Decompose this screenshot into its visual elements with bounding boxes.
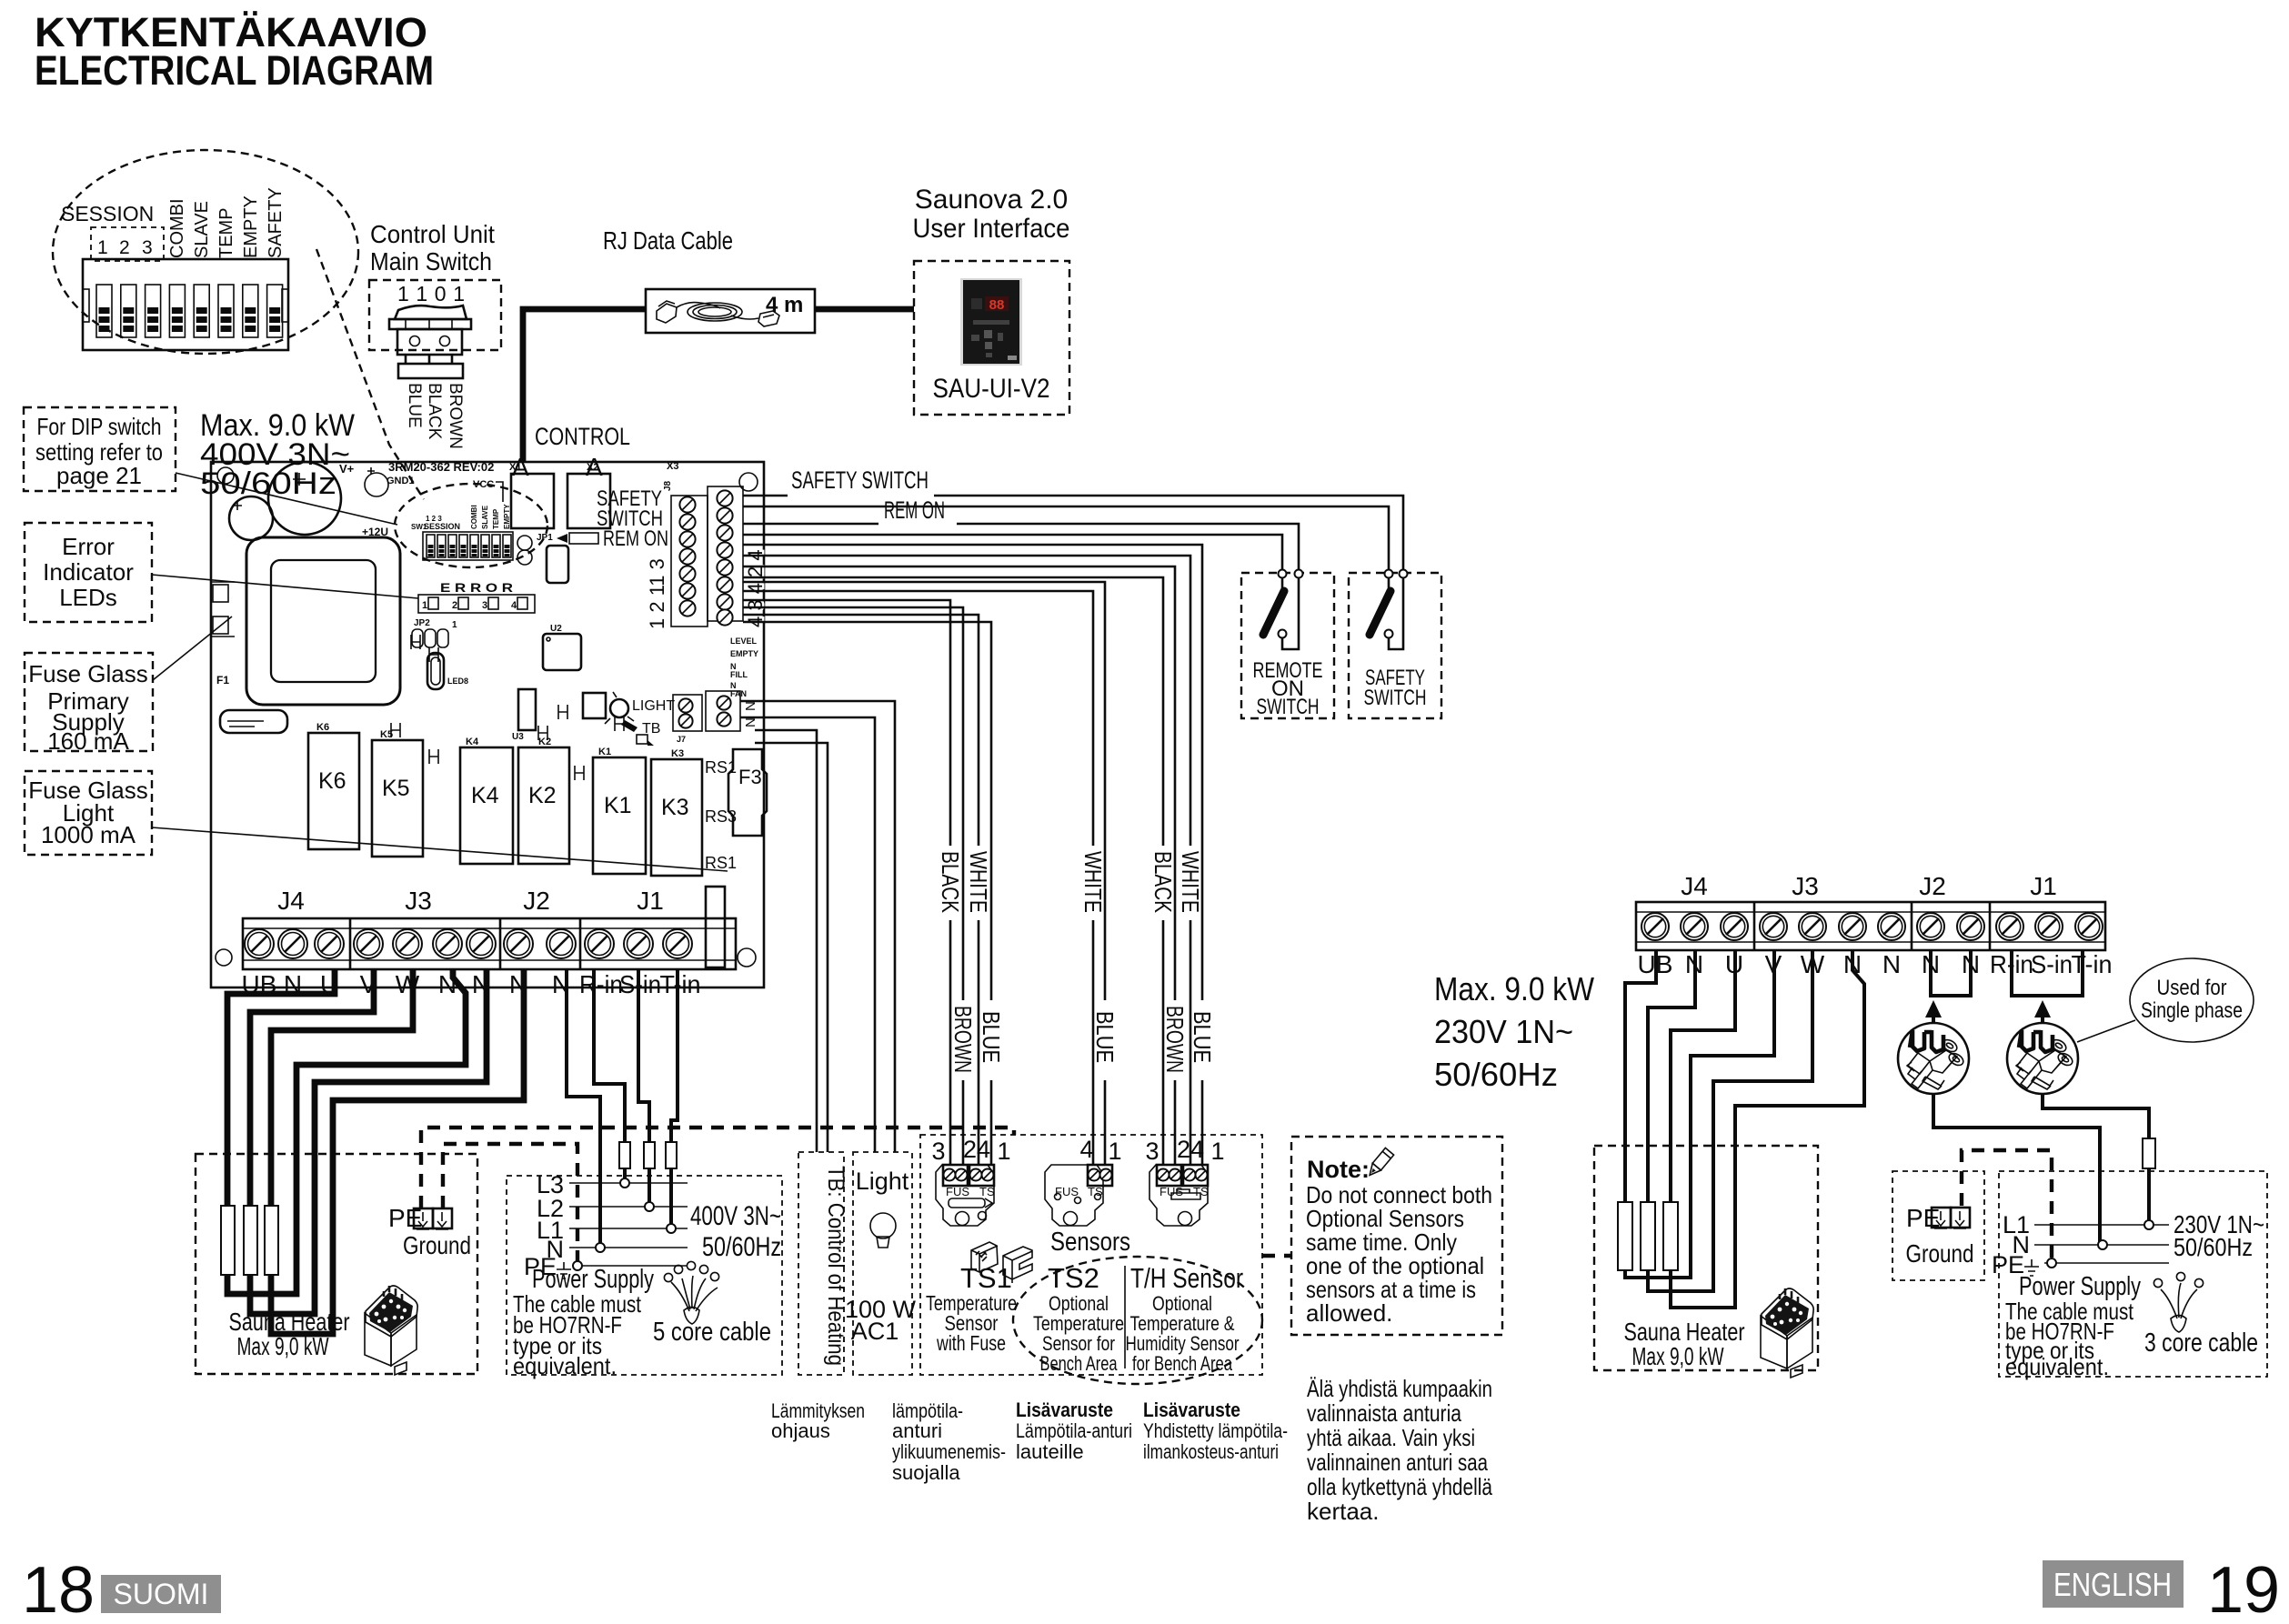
svg-text:Lämpötila-anturi: Lämpötila-anturi xyxy=(1016,1419,1132,1442)
connector J8 right column xyxy=(708,486,743,621)
svg-text:SWITCH: SWITCH xyxy=(1364,686,1427,710)
PCB board outline xyxy=(211,462,764,987)
label Max 9.0 kW 230V 1N~ 50/60Hz (right) xyxy=(1434,970,1594,1093)
jumper JP1 xyxy=(517,533,553,565)
wire w3 REM ON to remote switch right pin xyxy=(743,524,1299,569)
svg-text:SESSION: SESSION xyxy=(424,522,460,531)
svg-text:Ground: Ground xyxy=(403,1231,471,1259)
svg-text:W: W xyxy=(396,970,420,998)
plug circle 1 xyxy=(1898,1023,1969,1094)
annotation box: Fuse Glass Light 1000 mA xyxy=(25,771,152,855)
svg-text:1 1 0 1: 1 1 0 1 xyxy=(397,282,465,306)
label Max 9.0 kW 400V 3N~ 50/60Hz xyxy=(200,408,355,501)
svg-text:RJ Data Cable: RJ Data Cable xyxy=(603,226,733,255)
svg-text:Max. 9.0 kW: Max. 9.0 kW xyxy=(1434,970,1594,1007)
annotation box: Error Indicator LEDs xyxy=(25,523,152,622)
svg-text:X3: X3 xyxy=(667,461,678,472)
3 core cable icon xyxy=(2153,1272,2203,1332)
svg-text:Light: Light xyxy=(856,1168,909,1195)
finnish label Lisavaruste T/H xyxy=(1143,1398,1288,1463)
svg-text:BLUE: BLUE xyxy=(405,383,424,428)
svg-text:equivalent.: equivalent. xyxy=(2005,1353,2109,1380)
connector X2 xyxy=(567,474,610,528)
svg-text:BLUE: BLUE xyxy=(1091,1011,1119,1063)
svg-text:FUS: FUS xyxy=(1055,1185,1079,1198)
svg-text:BLACK: BLACK xyxy=(1150,851,1177,914)
terminal screws main strip xyxy=(245,929,692,958)
svg-text:J7: J7 xyxy=(677,735,686,744)
SAFETY SWITCH dashed box xyxy=(1349,573,1441,718)
fuse on R-in line xyxy=(619,1142,630,1168)
svg-text:3: 3 xyxy=(142,237,153,258)
Note dashed box xyxy=(1291,1137,1502,1335)
wire to TB box b xyxy=(755,743,828,1152)
annotation box: Fuse Glass Primary Supply 160 mA xyxy=(25,653,153,755)
caps between relays xyxy=(391,723,584,780)
svg-text:3RM20-362 REV:02: 3RM20-362 REV:02 xyxy=(388,460,494,474)
wire w2 to safety switch left pin xyxy=(743,506,1389,569)
chip U3 xyxy=(512,689,536,742)
fuse on T-in line xyxy=(666,1142,677,1168)
svg-text:EMPTY: EMPTY xyxy=(241,195,261,258)
dashed box around 1 2 3 xyxy=(91,227,164,261)
fuse on S-in line xyxy=(644,1142,655,1168)
sauna heater icon (right) xyxy=(1761,1288,1813,1378)
svg-text:Yhdistetty lämpötila-: Yhdistetty lämpötila- xyxy=(1143,1419,1288,1442)
svg-text:Main Switch: Main Switch xyxy=(370,247,492,276)
svg-text:ilmankosteus-anturi: ilmankosteus-anturi xyxy=(1143,1440,1279,1463)
svg-text:TS1: TS1 xyxy=(960,1262,1012,1294)
small caps H symbols xyxy=(411,635,438,662)
wire N3 to element3 bottom xyxy=(271,969,524,1334)
svg-text:N: N xyxy=(1882,950,1901,978)
dashed leader sensors to note xyxy=(1262,1254,1291,1258)
line L3 xyxy=(569,1182,688,1184)
svg-text:SW1: SW1 xyxy=(411,523,427,531)
main switch rocker xyxy=(389,306,471,378)
svg-text:CONTROL: CONTROL xyxy=(535,423,630,450)
svg-text:5 core cable: 5 core cable xyxy=(653,1318,771,1347)
svg-text:Lisävaruste: Lisävaruste xyxy=(1143,1398,1240,1421)
label The cable must be HO7RN-F type or its equivalent xyxy=(513,1290,642,1379)
svg-text:Single phase: Single phase xyxy=(2141,998,2243,1023)
svg-text:Bench Area: Bench Area xyxy=(1040,1352,1119,1375)
svg-text:1: 1 xyxy=(1108,1138,1121,1165)
svg-text:ohjaus: ohjaus xyxy=(771,1419,830,1442)
leader from ellipse to plug2 xyxy=(2077,1020,2135,1042)
chip U2 xyxy=(543,624,581,670)
svg-text:LEDs: LEDs xyxy=(59,584,117,611)
relay K2 xyxy=(518,737,569,864)
line PE xyxy=(582,1265,688,1267)
Power Supply dashed box (left) xyxy=(507,1176,782,1375)
leader line from Fuse Glass Light box to F3 xyxy=(152,827,728,871)
svg-text:TS: TS xyxy=(979,1185,995,1198)
finnish label Lammityksen ohjaus xyxy=(771,1399,865,1442)
svg-text:J1: J1 xyxy=(637,887,664,915)
svg-text:kertaa.: kertaa. xyxy=(1307,1498,1380,1525)
wire w12 BROWN to TS1 sensor xyxy=(743,607,963,1165)
svg-text:19: 19 xyxy=(2207,1554,2280,1624)
resistor block right xyxy=(706,887,725,967)
svg-text:JP2: JP2 xyxy=(414,618,430,628)
svg-text:BROWN: BROWN xyxy=(949,1006,977,1073)
svg-text:SUOMI: SUOMI xyxy=(114,1578,209,1610)
svg-text:WHITE: WHITE xyxy=(1079,851,1107,913)
svg-text:page 21: page 21 xyxy=(56,462,142,489)
component under transformer xyxy=(220,710,287,733)
svg-text:1: 1 xyxy=(97,237,108,258)
svg-text:LED8: LED8 xyxy=(447,677,468,686)
svg-text:50/60Hz: 50/60Hz xyxy=(1434,1056,1558,1093)
right terminal labels xyxy=(1638,950,2113,978)
svg-text:1 2 11 3: 1 2 11 3 xyxy=(646,558,668,629)
light bulb icon xyxy=(870,1213,896,1248)
dashed ellipse around optional sensors xyxy=(1013,1257,1262,1384)
svg-text:T-in: T-in xyxy=(2072,950,2113,978)
wire J7 to Light box a xyxy=(740,701,895,1152)
arrow to plug1 xyxy=(1925,1000,1942,1018)
svg-text:Used for: Used for xyxy=(2157,976,2227,1000)
heater element 2 xyxy=(244,1206,257,1275)
transformer T1 outer xyxy=(246,537,400,705)
label TS1 description xyxy=(926,1291,1017,1355)
wire w14 BLUE to TS1 sensor xyxy=(743,622,991,1165)
wire W to heater element 3 xyxy=(271,969,413,1206)
ENGLISH gray tag xyxy=(2043,1560,2184,1608)
svg-text:E R R O R: E R R O R xyxy=(440,580,513,595)
wire to TB box a xyxy=(755,730,817,1152)
svg-text:WHITE: WHITE xyxy=(1177,851,1204,913)
svg-text:Max 9,0 kW: Max 9,0 kW xyxy=(237,1332,329,1360)
dashed earth wire (right) xyxy=(1962,1150,2052,1259)
svg-text:GND1: GND1 xyxy=(387,476,415,486)
svg-text:50/60Hz: 50/60Hz xyxy=(702,1232,781,1262)
Power Supply dashed box (right) xyxy=(1999,1171,2267,1377)
plug circle 2 xyxy=(2007,1023,2078,1094)
right terminal strip xyxy=(1636,902,2105,950)
svg-text:K1: K1 xyxy=(598,747,611,757)
svg-text:J2: J2 xyxy=(1919,872,1946,900)
svg-text:Ground: Ground xyxy=(1906,1239,1974,1268)
relay K1 xyxy=(593,747,646,874)
svg-text:yhtä aikaa. Vain yksi: yhtä aikaa. Vain yksi xyxy=(1307,1424,1475,1451)
wire PCB CONTROL to RJ box xyxy=(523,309,646,462)
leader line from Error box to ERROR LEDs xyxy=(152,575,418,598)
remote on switch symbol xyxy=(1263,570,1303,650)
DIP switch callout dashed ellipse xyxy=(53,150,358,354)
svg-text:olla kytkettynä yhdellä: olla kytkettynä yhdellä xyxy=(1307,1473,1492,1500)
label REM ON with arrow xyxy=(557,526,668,551)
J8 screws left xyxy=(679,496,695,616)
svg-text:COMBI: COMBI xyxy=(167,198,187,258)
svg-text:J1: J1 xyxy=(2030,872,2057,900)
svg-text:J3: J3 xyxy=(405,887,432,915)
bracket J2 N-N to plug1 xyxy=(1931,950,1971,996)
svg-text:RS3: RS3 xyxy=(705,807,737,826)
svg-text:K6: K6 xyxy=(316,722,329,733)
svg-text:REM ON: REM ON xyxy=(884,496,945,524)
svg-text:LEVEL: LEVEL xyxy=(730,637,758,646)
svg-text:RS1: RS1 xyxy=(705,758,737,777)
svg-text:BROWN: BROWN xyxy=(1161,1006,1189,1073)
svg-text:allowed.: allowed. xyxy=(1306,1299,1392,1327)
finnish label lampotila-anturi xyxy=(892,1399,1006,1484)
wire N to element2 (right) xyxy=(1648,950,1695,1202)
svg-text:88: 88 xyxy=(989,297,1005,313)
crystal Y1 xyxy=(427,653,468,689)
svg-text:K1: K1 xyxy=(604,793,632,818)
svg-text:Lisävaruste: Lisävaruste xyxy=(1016,1398,1113,1421)
wire J7 to Light box b xyxy=(740,717,875,1152)
svg-text:J4: J4 xyxy=(277,887,305,915)
wire w1 to safety switch right pin xyxy=(743,496,1403,569)
wire w11 BLACK to TS1 sensor xyxy=(743,600,950,1165)
wire w9 BLUE to TS2 sensor xyxy=(743,582,1105,1165)
svg-text:4: 4 xyxy=(1079,1136,1093,1163)
SUOMI gray tag xyxy=(101,1575,221,1613)
svg-text:SAFETY: SAFETY xyxy=(266,187,286,258)
svg-text:FILL: FILL xyxy=(730,670,748,679)
wire plug1 to N line xyxy=(1933,1094,2100,1245)
svg-text:Indicator: Indicator xyxy=(43,558,134,586)
Light dashed box xyxy=(853,1152,912,1375)
svg-text:K4: K4 xyxy=(471,783,499,808)
svg-text:equivalent.: equivalent. xyxy=(513,1352,617,1379)
svg-text:3: 3 xyxy=(1145,1138,1159,1165)
light icon on PCB xyxy=(605,692,675,746)
PE ground terminal (right) xyxy=(1892,1171,1984,1280)
wire w7 BROWN to T/H sensor xyxy=(743,566,1175,1165)
svg-text:SLAVE: SLAVE xyxy=(481,505,489,529)
svg-text:R-in: R-in xyxy=(579,970,623,998)
sensor T/H xyxy=(1145,1136,1224,1226)
Sensors dashed box xyxy=(920,1135,1262,1375)
Saunova UI panel SAU-UI-V2 xyxy=(960,278,1022,366)
wire plug2 to fuse to L1 line xyxy=(2043,1094,2149,1225)
svg-text:REM ON: REM ON xyxy=(603,526,668,551)
RJ plug right xyxy=(758,311,779,326)
heater element 3 (right) xyxy=(1663,1202,1678,1270)
svg-text:SAFETY SWITCH: SAFETY SWITCH xyxy=(791,466,929,494)
REMOTE ON SWITCH dashed box xyxy=(1241,573,1334,718)
svg-text:T/H Sensor: T/H Sensor xyxy=(1130,1262,1243,1294)
wire V to heater element 2 xyxy=(250,969,374,1206)
svg-text:1 2 3: 1 2 3 xyxy=(426,515,442,523)
svg-text:U2: U2 xyxy=(550,624,562,634)
svg-text:For DIP switch: For DIP switch xyxy=(37,413,162,440)
wire U to element3 (right) xyxy=(1671,950,1735,1202)
divider between TS2 and T/H columns xyxy=(1124,1266,1126,1368)
svg-text:A: A xyxy=(586,453,603,481)
dashed earth wire to sensors box xyxy=(421,1128,1014,1208)
svg-text:S-in: S-in xyxy=(2031,950,2073,978)
relay K6 xyxy=(308,722,359,849)
svg-text:SWITCH: SWITCH xyxy=(1257,695,1320,719)
svg-text:K5: K5 xyxy=(382,776,410,801)
Control Unit Main Switch dashed box xyxy=(369,280,501,350)
svg-text:ENGLISH: ENGLISH xyxy=(2053,1566,2172,1603)
wire N1 to element1 bottom xyxy=(227,969,466,1294)
svg-text:lauteille: lauteille xyxy=(1016,1440,1084,1463)
dashed earth wire to power supply box xyxy=(443,1144,577,1264)
sensor TS2 xyxy=(1045,1136,1122,1226)
label T/H description xyxy=(1126,1292,1240,1375)
sauna heater icon (left) xyxy=(365,1286,417,1375)
leader line from Fuse Glass Primary box to F1 xyxy=(153,617,232,680)
svg-text:User Interface: User Interface xyxy=(913,214,1070,244)
svg-text:SLAVE: SLAVE xyxy=(192,201,212,258)
label Used for Single phase ellipse xyxy=(2130,958,2254,1042)
svg-text:K2: K2 xyxy=(538,737,551,747)
svg-text:valinnaista anturia: valinnaista anturia xyxy=(1307,1399,1461,1427)
wire W to element2 bottom (right) xyxy=(1648,950,1812,1291)
DIP switch block (callout) xyxy=(83,259,288,350)
connector J7 xyxy=(673,691,740,744)
svg-text:Note:: Note: xyxy=(1307,1156,1370,1183)
line N xyxy=(569,1247,688,1248)
svg-text:1: 1 xyxy=(452,620,457,630)
wire w8 BLACK to T/H sensor xyxy=(743,577,1163,1165)
svg-text:K3: K3 xyxy=(661,795,689,820)
cable coil xyxy=(677,303,720,308)
svg-text:A: A xyxy=(512,453,529,481)
wire w4 to remote switch left pin xyxy=(743,535,1282,569)
svg-text:K6: K6 xyxy=(318,768,346,794)
annotation box: For DIP switch setting refer to page 21 xyxy=(24,407,176,491)
labels LEVEL EMPTY N FILL N FAN xyxy=(730,637,758,698)
line L1 xyxy=(569,1228,688,1229)
relay K4 xyxy=(460,737,513,864)
finnish note text xyxy=(1307,1375,1492,1525)
svg-text:1: 1 xyxy=(422,600,427,611)
svg-text:SAU-UI-V2: SAU-UI-V2 xyxy=(933,374,1050,404)
wire RJ box to Saunova UI xyxy=(815,306,914,313)
svg-text:COMBI: COMBI xyxy=(470,505,478,529)
wire R-in to fuse and L3 xyxy=(594,969,625,1183)
svg-text:Max 9,0 kW: Max 9,0 kW xyxy=(1632,1342,1724,1370)
DIP switch dashed ellipse on PCB xyxy=(395,484,547,567)
svg-text:TEMP: TEMP xyxy=(492,508,500,529)
terminal labels UB N U V W N N N N R-in S-in T-in xyxy=(242,970,701,998)
line L2 xyxy=(569,1206,688,1208)
svg-text:J3: J3 xyxy=(1792,872,1819,900)
svg-text:anturi: anturi xyxy=(892,1419,942,1442)
wire N2 to element2 bottom xyxy=(250,969,487,1314)
sensor TS1 xyxy=(931,1136,1010,1226)
RJ plug left xyxy=(657,301,677,323)
PCB mounting holes xyxy=(217,467,234,484)
wire w6 WHITE to T/H sensor xyxy=(743,556,1190,1165)
chip U1 xyxy=(547,546,568,583)
wire T-in to fuse and L1 xyxy=(671,969,678,1228)
svg-text:50/60Hz: 50/60Hz xyxy=(2174,1233,2253,1261)
svg-text:for Bench Area: for Bench Area xyxy=(1132,1352,1233,1375)
terminal strip main xyxy=(243,918,736,969)
safety switch symbol xyxy=(1370,570,1408,650)
svg-text:EMPTY: EMPTY xyxy=(730,649,758,658)
svg-text:Sensors: Sensors xyxy=(1050,1228,1130,1257)
svg-text:Saunova 2.0: Saunova 2.0 xyxy=(915,185,1068,215)
svg-text:LIGHT: LIGHT xyxy=(632,698,675,714)
svg-text:1: 1 xyxy=(1210,1138,1224,1165)
Sauna Heater dashed box (left) xyxy=(196,1154,477,1374)
wire w13 WHITE to TS1 sensor xyxy=(743,615,979,1165)
svg-text:valinnainen anturi saa: valinnainen anturi saa xyxy=(1307,1449,1488,1476)
PE ground terminal (left) xyxy=(388,1204,471,1259)
title KYTKENTAKAAVIO / ELECTRICAL DIAGRAM xyxy=(35,9,434,94)
svg-text:VCC: VCC xyxy=(473,479,494,490)
Saunova UI dashed box xyxy=(914,261,1069,415)
svg-text:K3: K3 xyxy=(671,748,684,759)
svg-text:SESSION: SESSION xyxy=(61,202,154,226)
DIP switches 1-8 (callout) xyxy=(96,285,283,337)
svg-text:Fuse Glass: Fuse Glass xyxy=(28,660,148,687)
heater element 1 (right) xyxy=(1618,1202,1632,1270)
svg-text:JP1: JP1 xyxy=(537,533,553,543)
svg-text:with Fuse: with Fuse xyxy=(936,1331,1006,1355)
bracket J1 S-in/T-in to plug2 xyxy=(2012,950,2083,996)
svg-text:N: N xyxy=(743,701,758,711)
svg-text:T-in: T-in xyxy=(660,970,701,998)
svg-text:ELECTRICAL DIAGRAM: ELECTRICAL DIAGRAM xyxy=(35,47,434,94)
svg-text:K2: K2 xyxy=(528,783,557,808)
note text xyxy=(1306,1181,1492,1327)
svg-text:18: 18 xyxy=(22,1554,95,1624)
svg-text:EMPTY: EMPTY xyxy=(503,504,511,529)
right strip screws xyxy=(1641,913,2103,940)
svg-text:3: 3 xyxy=(931,1138,945,1165)
svg-text:F3: F3 xyxy=(738,766,762,788)
jumper JP2 xyxy=(412,618,457,647)
capacitor C-small xyxy=(229,496,273,540)
fuse right xyxy=(2143,1138,2155,1168)
svg-text:1: 1 xyxy=(997,1138,1010,1165)
5 core cable icon xyxy=(664,1261,718,1324)
svg-text:BLACK: BLACK xyxy=(425,383,444,440)
finnish label Lisavaruste TS2 xyxy=(1016,1398,1132,1463)
connector icons near TS1 xyxy=(971,1242,1032,1283)
heater element 2 (right) xyxy=(1641,1202,1655,1270)
svg-text:400V 3N~: 400V 3N~ xyxy=(690,1201,781,1231)
label Note: with pencil icon xyxy=(1307,1148,1394,1183)
svg-text:TEMP: TEMP xyxy=(216,207,236,258)
TB Control of Heating dashed box xyxy=(798,1152,844,1375)
svg-text:24: 24 xyxy=(1177,1136,1204,1163)
wire U to heater element 1 xyxy=(227,969,335,1206)
svg-text:3: 3 xyxy=(482,600,487,611)
svg-text:Control Unit: Control Unit xyxy=(370,220,495,248)
svg-text:4: 4 xyxy=(511,600,517,611)
wire UB to element1 (right) xyxy=(1625,950,1656,1202)
svg-text:160 mA: 160 mA xyxy=(47,727,129,755)
ERROR indicator LEDs xyxy=(418,580,535,613)
capacitor C-3 xyxy=(365,473,388,496)
svg-text:J8: J8 xyxy=(663,480,673,491)
svg-text:WHITE: WHITE xyxy=(965,851,992,913)
svg-text:24: 24 xyxy=(963,1136,990,1163)
dashed leader from callout ellipse to PCB DIP xyxy=(316,249,424,499)
J8 screws right xyxy=(717,490,732,625)
fuse F1 clips on left edge xyxy=(211,582,235,687)
arrow to plug2 xyxy=(2034,1000,2051,1018)
svg-text:BLUE: BLUE xyxy=(1189,1011,1216,1063)
svg-text:FUS: FUS xyxy=(946,1185,969,1198)
relay K5 xyxy=(372,729,423,857)
wire w5 BLUE to T/H sensor xyxy=(743,545,1202,1165)
svg-text:V+: V+ xyxy=(339,462,355,476)
svg-text:ylikuumenemis-: ylikuumenemis- xyxy=(892,1440,1006,1463)
